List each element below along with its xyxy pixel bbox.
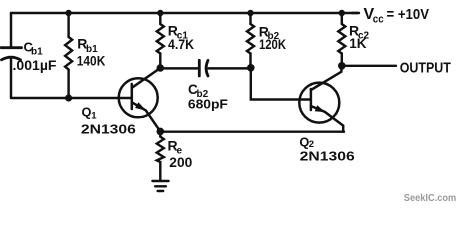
svg-text:200: 200 (169, 155, 192, 170)
node junction top Rc1 (157, 10, 163, 16)
node junction Rb1 bottom (65, 94, 72, 101)
node junction Q1 collector (157, 64, 165, 72)
transistor Q2 emitter arrow (315, 105, 326, 112)
svg-text:Q: Q (82, 105, 92, 120)
capacitor Cb2 (199, 60, 208, 76)
svg-text:1: 1 (91, 111, 97, 122)
wire bottom-left to Q1 base (11, 97, 132, 99)
wire Cb1 bottom stem (10, 58, 12, 98)
node junction top Rb2 (247, 10, 253, 16)
svg-text:.001µF: .001µF (13, 57, 57, 73)
transistor Q1 emitter arrow (135, 102, 146, 110)
svg-text:120K: 120K (259, 37, 286, 52)
resistor Rb2 (247, 13, 254, 68)
svg-text:b1: b1 (31, 47, 43, 58)
svg-text:680pF: 680pF (188, 97, 228, 112)
svg-text:4.7K: 4.7K (168, 37, 194, 52)
wire Cb2 to Rb2 node (209, 67, 251, 69)
transistor Q1 (119, 68, 161, 131)
wire emitter rail (160, 130, 344, 132)
wire top Vcc rail (11, 12, 358, 14)
wire Rc1 node to Cb2 (160, 67, 199, 69)
svg-text:= +10V: = +10V (387, 7, 430, 23)
svg-text:cc: cc (373, 14, 384, 26)
resistor Re (157, 131, 164, 180)
transistor Q2 (299, 66, 343, 132)
wire left vertical to Cb1 (10, 13, 12, 48)
svg-text:2N1306: 2N1306 (81, 121, 136, 136)
capacitor Cb1 (1, 48, 22, 60)
ground (152, 181, 168, 191)
node junction Q1 emitter (157, 128, 165, 136)
node junction top Rc2 (339, 10, 345, 16)
wire Vcc stub (352, 12, 359, 14)
resistor Rb1 (65, 13, 72, 98)
wire Rb2 node down to Q2 base (251, 68, 311, 100)
svg-text:OUTPUT: OUTPUT (400, 60, 451, 77)
node junction output (338, 62, 346, 70)
wire output (342, 65, 396, 67)
node junction top Rb1 (65, 10, 71, 16)
svg-text:SeekIC.com: SeekIC.com (404, 192, 456, 204)
node junction Rb2 bottom (247, 64, 255, 72)
svg-text:140K: 140K (77, 53, 106, 69)
svg-text:2N1306: 2N1306 (300, 148, 355, 163)
resistor Rc2 (338, 13, 345, 66)
svg-text:1K: 1K (349, 36, 367, 51)
resistor Rc1 (157, 13, 164, 68)
